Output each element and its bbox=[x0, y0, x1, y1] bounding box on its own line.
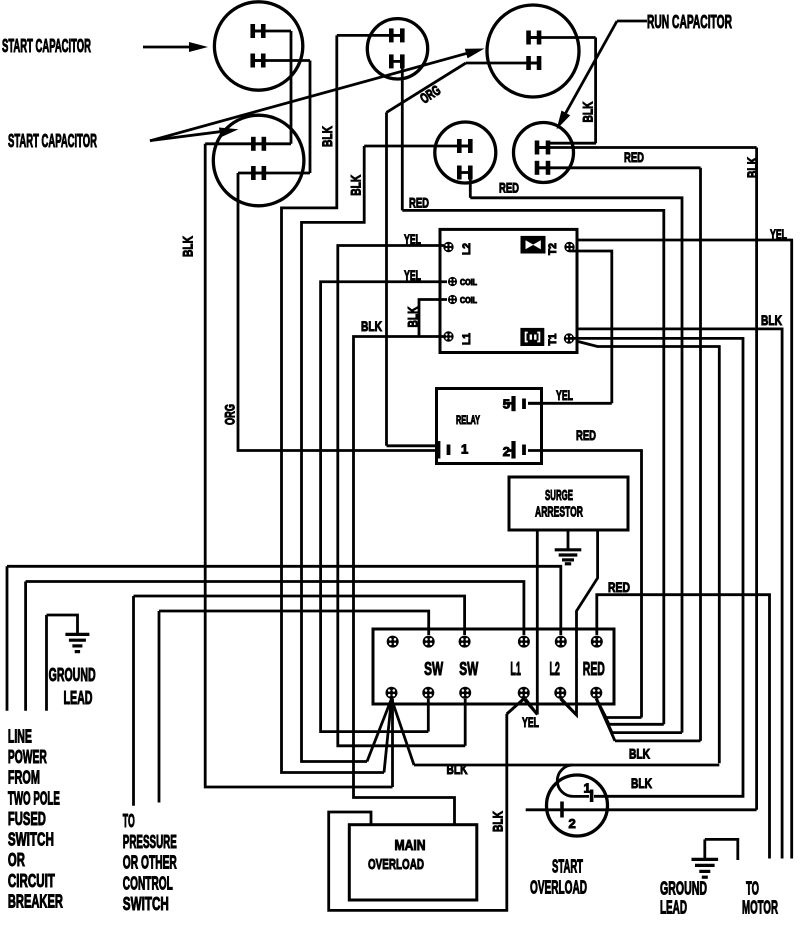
svg-text:2: 2 bbox=[503, 444, 510, 459]
svg-text:5: 5 bbox=[503, 397, 510, 412]
svg-text:MOTOR: MOTOR bbox=[742, 898, 778, 918]
svg-text:BLK: BLK bbox=[744, 157, 760, 178]
svg-text:OR OTHER: OR OTHER bbox=[123, 853, 177, 873]
svg-text:L2: L2 bbox=[461, 243, 473, 255]
svg-text:TO: TO bbox=[123, 811, 135, 831]
svg-text:START CAPACITOR: START CAPACITOR bbox=[2, 36, 91, 56]
svg-text:1: 1 bbox=[461, 442, 468, 457]
svg-text:RED: RED bbox=[608, 579, 630, 595]
svg-text:BLK: BLK bbox=[580, 102, 596, 123]
svg-text:MAIN: MAIN bbox=[395, 837, 426, 854]
svg-text:1: 1 bbox=[584, 781, 591, 796]
svg-text:OVERLOAD: OVERLOAD bbox=[530, 878, 587, 898]
svg-text:BLK: BLK bbox=[631, 775, 652, 791]
svg-text:L1: L1 bbox=[510, 659, 521, 679]
svg-text:BLK: BLK bbox=[180, 236, 196, 257]
svg-text:COIL: COIL bbox=[460, 278, 477, 287]
svg-text:SW: SW bbox=[424, 659, 443, 679]
svg-text:BLK: BLK bbox=[489, 811, 505, 832]
svg-text:BLK: BLK bbox=[361, 318, 382, 334]
svg-text:POWER: POWER bbox=[8, 747, 47, 767]
svg-text:YEL: YEL bbox=[522, 714, 539, 730]
svg-text:FROM: FROM bbox=[8, 768, 40, 788]
svg-text:SWITCH: SWITCH bbox=[123, 894, 169, 914]
svg-text:SWITCH: SWITCH bbox=[8, 830, 54, 850]
svg-text:RED: RED bbox=[576, 427, 596, 443]
svg-text:FUSED: FUSED bbox=[8, 809, 46, 829]
svg-text:BLK: BLK bbox=[447, 761, 468, 777]
svg-text:L1: L1 bbox=[461, 333, 473, 345]
svg-text:BREAKER: BREAKER bbox=[8, 892, 63, 912]
svg-text:OVERLOAD: OVERLOAD bbox=[368, 856, 424, 873]
svg-text:2: 2 bbox=[569, 816, 576, 831]
svg-text:GROUND: GROUND bbox=[660, 879, 707, 899]
svg-text:ORG: ORG bbox=[222, 404, 238, 425]
svg-text:BLK: BLK bbox=[629, 746, 650, 762]
svg-text:TWO POLE: TWO POLE bbox=[8, 788, 60, 808]
svg-text:TO: TO bbox=[746, 879, 759, 899]
svg-text:PRESSURE: PRESSURE bbox=[123, 832, 177, 852]
svg-text:START CAPACITOR: START CAPACITOR bbox=[8, 131, 97, 151]
svg-text:RED: RED bbox=[583, 659, 605, 679]
svg-text:L2: L2 bbox=[549, 659, 560, 679]
svg-text:YEL: YEL bbox=[404, 267, 421, 283]
svg-text:ARRESTOR: ARRESTOR bbox=[535, 504, 583, 521]
svg-text:YEL: YEL bbox=[556, 387, 573, 403]
svg-text:BLK: BLK bbox=[761, 312, 782, 328]
svg-text:T1: T1 bbox=[547, 334, 559, 346]
svg-text:BLK: BLK bbox=[405, 307, 421, 328]
svg-text:SURGE: SURGE bbox=[545, 487, 573, 504]
svg-text:RED: RED bbox=[499, 180, 519, 196]
svg-text:YEL: YEL bbox=[770, 226, 787, 242]
svg-text:RED: RED bbox=[624, 149, 644, 165]
svg-text:LINE: LINE bbox=[8, 726, 32, 746]
svg-text:BLK: BLK bbox=[319, 126, 335, 147]
svg-text:RELAY: RELAY bbox=[456, 415, 480, 427]
svg-text:T2: T2 bbox=[547, 243, 559, 255]
svg-text:RUN CAPACITOR: RUN CAPACITOR bbox=[647, 12, 732, 32]
svg-text:YEL: YEL bbox=[404, 231, 421, 247]
svg-text:CIRCUIT: CIRCUIT bbox=[8, 871, 55, 891]
svg-text:CONTROL: CONTROL bbox=[123, 873, 173, 893]
svg-text:OR: OR bbox=[8, 850, 25, 870]
svg-text:COIL: COIL bbox=[460, 296, 477, 305]
svg-text:LEAD: LEAD bbox=[660, 898, 687, 918]
svg-text:GROUND: GROUND bbox=[49, 665, 96, 685]
svg-text:START: START bbox=[552, 857, 583, 877]
svg-text:SW: SW bbox=[459, 659, 478, 679]
svg-text:RED: RED bbox=[409, 195, 429, 211]
svg-text:BLK: BLK bbox=[347, 175, 363, 196]
svg-text:LEAD: LEAD bbox=[64, 688, 93, 708]
